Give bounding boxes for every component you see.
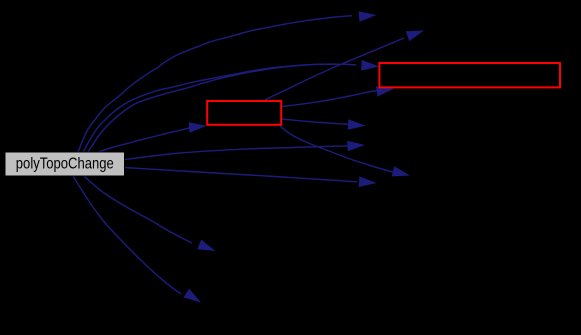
svg-text:polyTopoChange: polyTopoChange bbox=[16, 155, 114, 172]
